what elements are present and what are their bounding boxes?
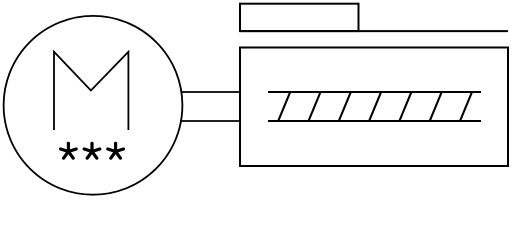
screw flight 5	[399, 92, 411, 121]
screw flight 3	[339, 92, 351, 121]
terminal box (small rectangle on top)	[240, 4, 359, 31]
asterisk 2	[84, 143, 100, 158]
screw flight 7	[460, 92, 472, 121]
conveyor housing box	[240, 48, 508, 167]
shaft lower line	[180, 120, 240, 122]
shaft upper line	[181, 91, 241, 93]
screw flight 6	[430, 92, 442, 121]
asterisk 1	[61, 143, 77, 158]
screw flight 1	[278, 92, 290, 121]
screw upper rail	[268, 91, 481, 93]
asterisk 3	[108, 143, 124, 158]
motor M1 body circle	[4, 16, 183, 195]
top mounting line	[240, 30, 508, 32]
motor letter M	[54, 52, 128, 130]
screw flight 4	[369, 92, 381, 121]
screw lower rail	[268, 120, 481, 122]
screw flight 2	[309, 92, 321, 121]
